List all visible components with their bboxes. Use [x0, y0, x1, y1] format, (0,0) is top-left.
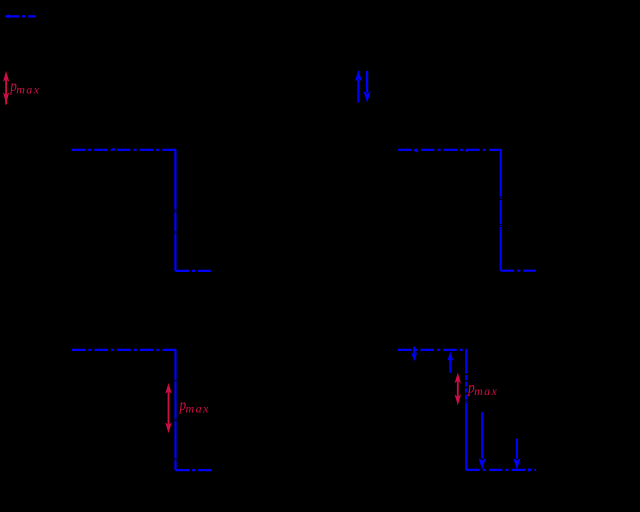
step pulse top-left panel: bottom level: [175, 270, 210, 272]
blue down arrow (top-right panel): [364, 71, 371, 103]
small up tick on top-left line: [111, 147, 116, 150]
step pulse top-right panel: bottom level: [501, 270, 536, 272]
blue long down arrow (bottom-right): [479, 412, 486, 469]
step pulse bottom-right panel: bottom level: [466, 469, 536, 471]
step pulse top-left panel: vertical front: [174, 150, 176, 271]
red double arrow p_max (bottom-left): [165, 383, 171, 433]
red double arrow p_max (top-left): [3, 71, 9, 105]
blue up arrow (top-right panel): [355, 70, 362, 103]
small blue down arrow crossing top line (bottom-right): [411, 347, 417, 362]
arrowhead left on corner segment: [5, 14, 9, 18]
step pulse top-right panel: top level: [398, 149, 502, 151]
step pulse bottom-right panel: top level: [398, 349, 468, 351]
step pulse bottom-right panel: vertical front: [465, 350, 467, 470]
step pulse bottom-left panel: vertical front: [174, 350, 176, 470]
blue up arrow to line (bottom-right): [447, 352, 453, 373]
svg-text:max: max: [474, 384, 498, 398]
small right arrow mark on bottom-right line: [528, 468, 532, 472]
svg-text:max: max: [16, 82, 40, 96]
small left arrow marks on top-right line: [413, 148, 418, 152]
red double arrow p_max (bottom-right): [455, 373, 461, 406]
wire: top-left corner dash-dot segment: [6, 15, 37, 17]
step pulse bottom-left panel: top level: [72, 349, 177, 351]
svg-text:max: max: [186, 401, 210, 415]
blue short down arrow (bottom-right): [513, 439, 520, 470]
step pulse top-left panel: top level: [72, 149, 177, 151]
step pulse top-right panel: vertical front: [500, 150, 502, 271]
step pulse bottom-left panel: bottom level: [176, 469, 212, 471]
